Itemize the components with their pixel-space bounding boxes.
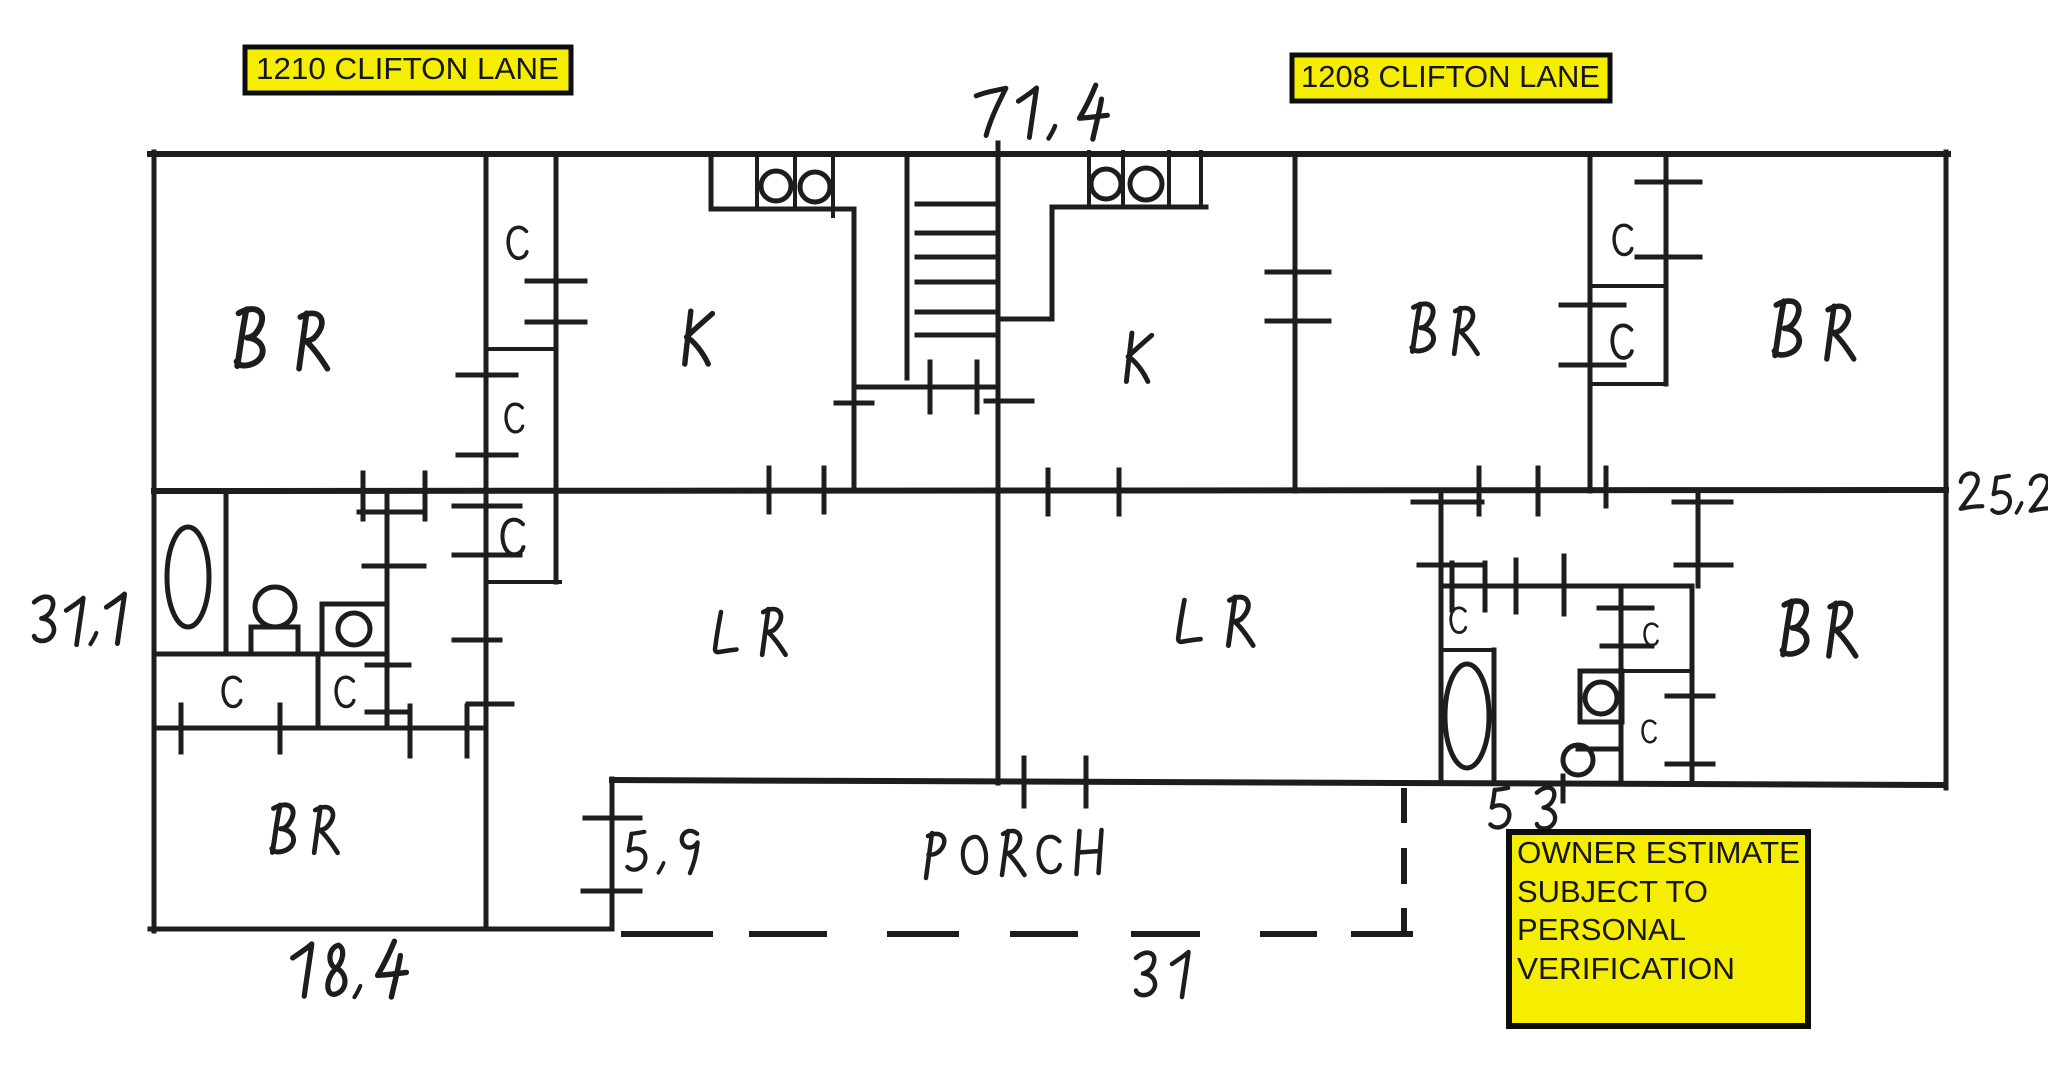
fixture: toilet 1208 bbox=[1580, 671, 1622, 722]
dimension 53 (below 1208 bath) bbox=[1490, 788, 1555, 829]
wall: 1208 hall stub wall (x=1698) bbox=[1696, 492, 1701, 586]
wall: mid closet bottom (y=582) bbox=[486, 580, 560, 584]
closet label C (1210 strip lower) bbox=[506, 404, 523, 432]
closet label C (1208 strip lower) bbox=[1612, 325, 1632, 357]
wall: 1208 bath middle wall (x=1621) bbox=[1619, 589, 1624, 782]
fixture: dryer drum circle 1210-right bbox=[800, 172, 830, 202]
closet label C (1210 bath closet right) bbox=[336, 677, 354, 706]
wall: top exterior wall bbox=[150, 151, 1948, 157]
tick marks on 1210 closet bottom wall bbox=[181, 705, 467, 756]
dimension 71,4 (top) bbox=[976, 85, 1107, 139]
wall: 1210 bathroom south wall (y=654) bbox=[155, 652, 387, 657]
room label BR (1208 rear bedroom, bottom-right) bbox=[1782, 601, 1855, 656]
tick marks on 1208 bath middle wall bbox=[1599, 608, 1652, 646]
wall: 1208 bath east wall (x=1692) bbox=[1690, 586, 1695, 782]
fixture: dryer drum circle 1208-right bbox=[1130, 168, 1162, 200]
room label PORCH bbox=[926, 830, 1102, 878]
tick marks on main divider (vertical ticks) bbox=[363, 468, 1606, 519]
svg-text:PERSONAL: PERSONAL bbox=[1517, 912, 1686, 947]
wall: main horizontal divider between front and rear rooms bbox=[154, 490, 1946, 491]
room label LR (1210 living room) bbox=[715, 609, 786, 655]
tick marks on 1210 bathroom east wall bbox=[359, 512, 424, 712]
room label K (1210 kitchen) bbox=[685, 311, 713, 364]
tick marks on 1208 K/BR wall bbox=[1267, 272, 1329, 321]
wall: 1208 closet divider (y=671) bbox=[1621, 669, 1692, 673]
tick marks on 1210 closet strip walls bbox=[454, 281, 585, 704]
closet label C (1208 bath closet) bbox=[1451, 608, 1466, 633]
fixture: washer-dryer nook shelf 1208 bbox=[1052, 205, 1206, 210]
room label K (1208 kitchen) bbox=[1126, 333, 1151, 381]
room label LR (1208 living room) bbox=[1178, 597, 1253, 645]
dimension 31 (porch south) bbox=[1136, 952, 1189, 997]
svg-text:OWNER ESTIMATE: OWNER ESTIMATE bbox=[1517, 835, 1800, 870]
wall: 1208 closet bottom (y=384) bbox=[1590, 382, 1666, 386]
wall: 1210 kitchen east wall (x=854) bbox=[852, 209, 857, 491]
fixture: bathtub 1210 bbox=[167, 527, 209, 627]
wall: porch west wall (x=612) bbox=[610, 779, 615, 929]
wall: closet divider shelf (y=349) bbox=[486, 347, 556, 351]
wall: 1208 stair enclosure bbox=[998, 207, 1052, 319]
wall: 1208 tub east wall (x=1494) bbox=[1492, 650, 1497, 783]
label box: OWNER ESTIMATE SUBJECT TO PERSONAL VERIFICATION bbox=[1509, 832, 1808, 1026]
room label BR (1210 front bedroom, top-left) bbox=[237, 309, 328, 369]
fixture: toilet 1210 bbox=[251, 587, 298, 654]
dimension 18,4 (bottom-left) bbox=[293, 941, 407, 997]
fixture: washer bay divider bars 1210 bbox=[757, 154, 833, 216]
wall: 1208 bath north wall (y=586) bbox=[1441, 584, 1692, 589]
fixture: washer-dryer nook wall 1210 bbox=[711, 154, 854, 209]
closet label C (1210 bath closet left) bbox=[223, 677, 241, 706]
wall: left exterior wall bbox=[152, 152, 157, 931]
tick marks at stair landing bbox=[930, 362, 977, 412]
wall: 1208 closet divider (y=286) bbox=[1590, 284, 1666, 288]
tick marks on 1208 bath east wall bbox=[1667, 696, 1713, 764]
wall: 1210 bathroom east wall (x=387) bbox=[385, 494, 390, 728]
fixture: washer bay divider bars 1208 bbox=[1089, 152, 1201, 207]
stairs: bottom landing wall bbox=[854, 385, 997, 390]
fixture: bathtub 1208 bbox=[1445, 664, 1489, 768]
label box: 1208 CLIFTON LANE bbox=[1292, 55, 1610, 101]
tick marks on 1208 hall stub wall bbox=[1674, 502, 1731, 565]
stairs: treads bbox=[917, 204, 995, 335]
room label BR (1208 middle bedroom) bbox=[1412, 304, 1478, 354]
wall: BR1/closet wall (x=486) bbox=[484, 154, 489, 929]
closet label C (1208 strip upper) bbox=[1614, 225, 1632, 254]
dimension 31,1 (left) bbox=[34, 594, 124, 645]
closet label C (1210 strip upper) bbox=[508, 227, 527, 258]
wall: bottom-left BR south wall (y=929) bbox=[150, 927, 612, 932]
wall: 1208 closet strip right wall (x=1666) bbox=[1664, 154, 1669, 384]
dimension 25,2 (right) bbox=[1961, 473, 2048, 512]
tick marks on porch west wall bbox=[583, 818, 640, 891]
tick marks on 1208 bath west wall bbox=[1413, 502, 1482, 565]
wall: 1208 bath west wall (x=1441) bbox=[1439, 492, 1444, 782]
svg-text:1208 CLIFTON LANE: 1208 CLIFTON LANE bbox=[1301, 59, 1600, 94]
porch: dashed east edge bbox=[1401, 791, 1407, 933]
room label BR (1208 front bedroom, top-right) bbox=[1774, 301, 1853, 359]
tick marks on 1208 closet walls bbox=[1561, 182, 1700, 365]
stairs: left stringer bbox=[905, 158, 910, 378]
closet label C (1210 mid closet) bbox=[502, 520, 523, 555]
wall: 1208 BR/closet wall (x=1590) bbox=[1588, 154, 1593, 491]
dimension 5,9 (porch west) bbox=[627, 831, 697, 873]
wall: 1210 tub compartment wall (x=226) bbox=[224, 492, 229, 654]
svg-text:VERIFICATION: VERIFICATION bbox=[1517, 951, 1735, 986]
svg-text:1210 CLIFTON LANE: 1210 CLIFTON LANE bbox=[256, 51, 559, 86]
wall: closet strip right wall (x=556) bbox=[554, 154, 559, 582]
wall: 1208 tub shelf (y=650) bbox=[1441, 648, 1494, 652]
fixture: washer drum circle 1210-left bbox=[761, 171, 791, 201]
fixture: washer drum circle 1208-left bbox=[1091, 169, 1121, 199]
closet label C (1208 east closet upper) bbox=[1645, 624, 1658, 646]
fixture: lavatory 1208 bbox=[1563, 745, 1620, 801]
fixture: sink 1210 bbox=[322, 604, 387, 654]
svg-text:SUBJECT TO: SUBJECT TO bbox=[1517, 874, 1708, 909]
room label BR (1210 rear bedroom, bottom-left) bbox=[272, 805, 338, 853]
tick marks on living room south wall bbox=[1024, 758, 1086, 806]
tick marks on kitchen walls bbox=[836, 401, 1032, 403]
label box: 1210 CLIFTON LANE bbox=[245, 47, 571, 93]
wall: living rooms south wall / porch north edge (y=781) bbox=[612, 780, 1943, 785]
closet label C (1208 east closet lower) bbox=[1643, 721, 1656, 743]
porch: dashed south edge bbox=[624, 931, 1410, 937]
wall: 1208 K/BR wall (x=1295) bbox=[1293, 154, 1298, 491]
tick marks on 1208 bath north wall bbox=[1452, 556, 1564, 614]
wall: right exterior wall bbox=[1944, 152, 1949, 788]
wall: 1210 closets bottom (y=728) bbox=[154, 726, 486, 731]
wall: 1210 closet divider (x=318) bbox=[316, 654, 321, 728]
wall: party wall between 1210 and 1208 units bbox=[996, 143, 1001, 783]
